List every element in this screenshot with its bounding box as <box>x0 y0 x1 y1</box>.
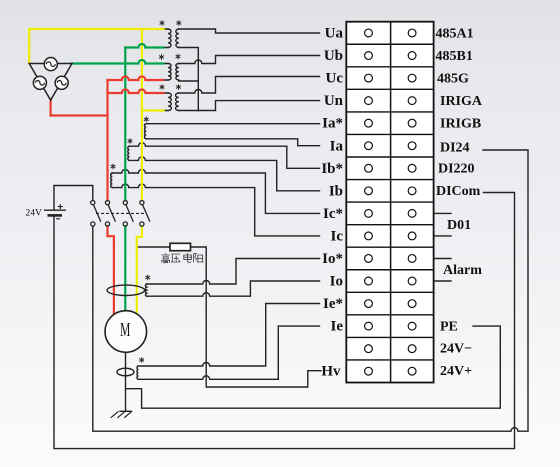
svg-text:485G: 485G <box>437 71 469 86</box>
svg-text:Uc: Uc <box>326 71 344 87</box>
svg-text:Ic: Ic <box>331 229 344 245</box>
svg-text:24V−: 24V− <box>440 342 472 357</box>
svg-text:IRIGA: IRIGA <box>440 94 483 109</box>
svg-text:Ia: Ia <box>330 138 344 154</box>
svg-text:PE: PE <box>440 320 458 335</box>
svg-text:Ic*: Ic* <box>323 206 343 222</box>
svg-text:DICom: DICom <box>436 184 481 199</box>
svg-text:Ie*: Ie* <box>323 296 343 312</box>
svg-text:D01: D01 <box>447 218 471 233</box>
svg-text:485A1: 485A1 <box>436 26 474 41</box>
svg-text:M: M <box>120 317 130 340</box>
svg-text:Ib: Ib <box>329 183 343 199</box>
svg-text:DI220: DI220 <box>438 162 475 177</box>
svg-text:Hv: Hv <box>321 364 341 380</box>
svg-text:IRIGB: IRIGB <box>440 117 481 132</box>
svg-text:DI24: DI24 <box>440 141 470 156</box>
svg-text:Io: Io <box>330 274 343 290</box>
svg-text:Ia*: Ia* <box>322 116 343 132</box>
svg-text:Alarm: Alarm <box>443 263 482 278</box>
svg-text:Un: Un <box>324 93 344 109</box>
svg-text:Ub: Ub <box>324 48 343 64</box>
svg-text:24V: 24V <box>26 209 43 219</box>
svg-text:Ie: Ie <box>331 319 344 335</box>
svg-text:Ua: Ua <box>325 26 344 42</box>
svg-text:Ib*: Ib* <box>321 161 343 177</box>
svg-text:Io*: Io* <box>322 251 343 267</box>
svg-text:24V+: 24V+ <box>440 364 472 379</box>
svg-text:485B1: 485B1 <box>436 49 473 64</box>
